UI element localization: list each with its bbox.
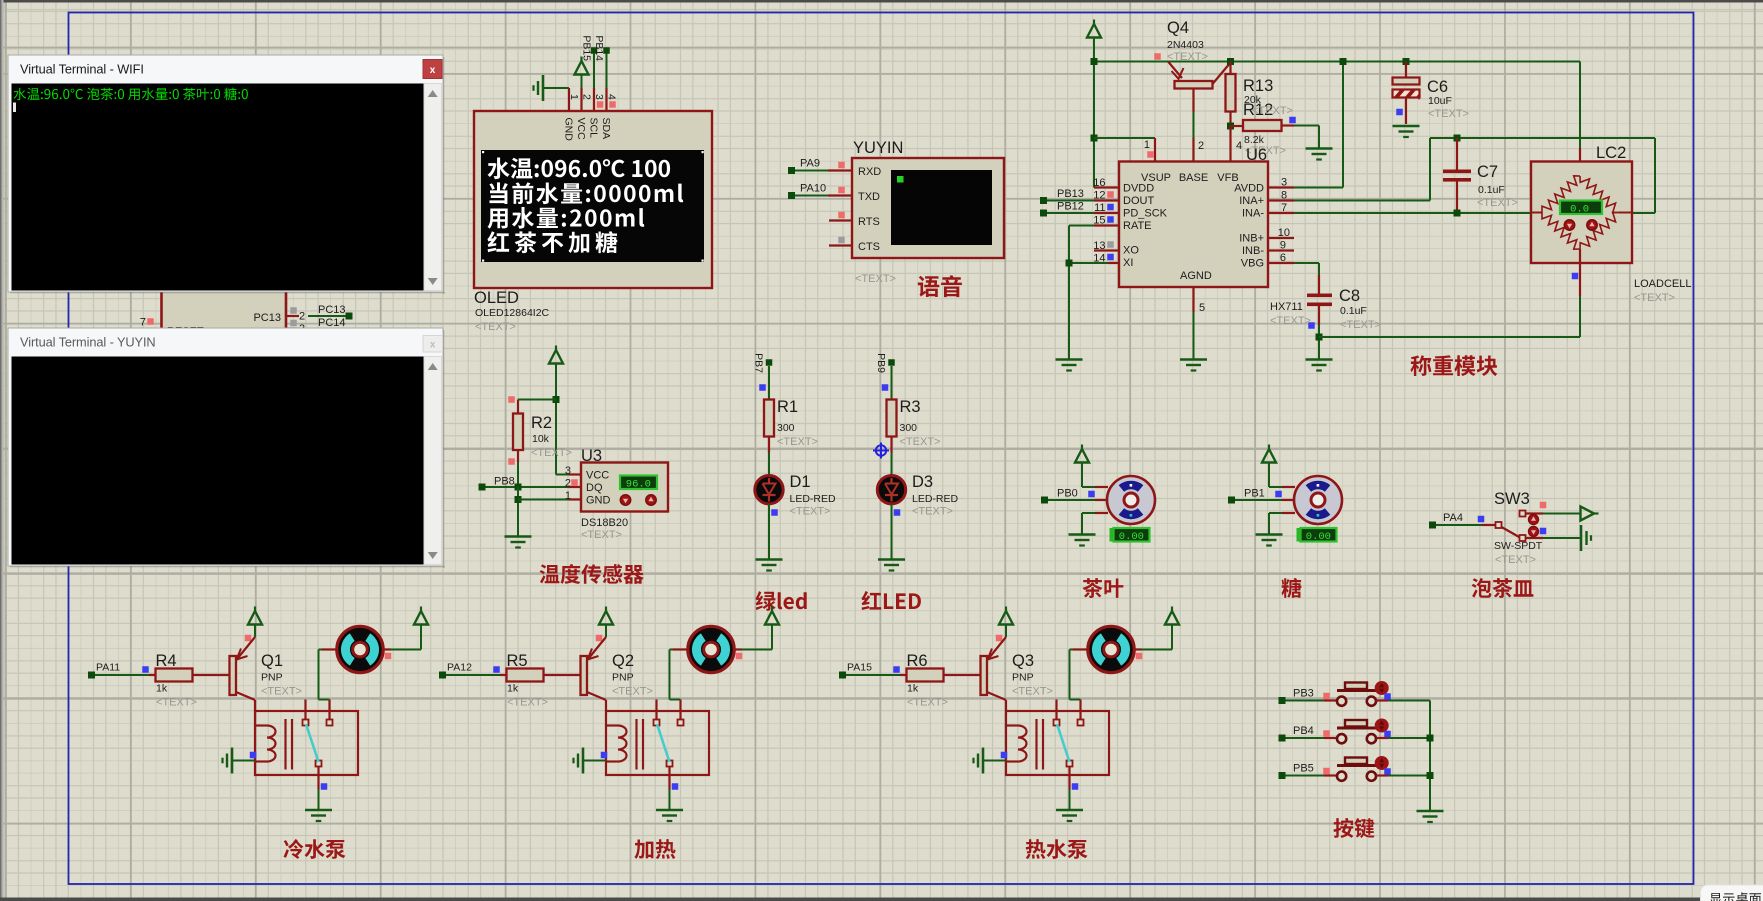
svg-text:PA12: PA12: [447, 662, 472, 674]
svg-text:INA+: INA+: [1239, 195, 1264, 207]
svg-text:<TEXT>: <TEXT>: [1270, 315, 1311, 327]
node junction XI: [1066, 260, 1073, 267]
ground (D3): [878, 558, 905, 561]
svg-text:0.1uF: 0.1uF: [1340, 305, 1367, 317]
power terminal VCC (top rail): [1093, 20, 1095, 27]
pin 7 INA-: [1269, 212, 1294, 214]
svg-text:INB-: INB-: [1242, 245, 1264, 257]
pump (Q2) symbol: [688, 626, 734, 672]
wire U3 GND pin: [518, 499, 569, 501]
screen left edge strip: [0, 0, 2, 901]
power terminal (Q2 emitter): [605, 607, 607, 614]
pin 6 VBG: [1269, 262, 1294, 264]
svg-text:AGND: AGND: [1180, 270, 1212, 282]
svg-text:YUYIN: YUYIN: [853, 139, 903, 157]
svg-text:Virtual Terminal - YUYIN: Virtual Terminal - YUYIN: [20, 335, 156, 350]
svg-text:SW3: SW3: [1494, 490, 1530, 508]
svg-text:DOUT: DOUT: [1123, 195, 1154, 207]
svg-text:RTS: RTS: [858, 216, 880, 228]
svg-text:<TEXT>: <TEXT>: [1012, 686, 1053, 698]
module YUYIN body: [852, 158, 1004, 258]
svg-text:2: 2: [299, 311, 305, 323]
svg-text:<TEXT>: <TEXT>: [1634, 292, 1675, 304]
svg-text:R3: R3: [900, 398, 921, 416]
net PB0 wire: [1041, 497, 1048, 504]
svg-text:1: 1: [565, 490, 571, 502]
pin 15 RATE: [1094, 224, 1119, 226]
node junction Q4 collector / R13 top: [1227, 58, 1234, 65]
svg-text:OLED: OLED: [474, 289, 519, 307]
wire PA15 to R6: [846, 674, 900, 676]
wire top power rail: [1094, 61, 1580, 63]
wire relay common to ground: [668, 767, 670, 790]
relay (Q1) coil ground wire: [232, 760, 255, 762]
annotation tea leaves: [1083, 578, 1124, 598]
svg-text:PD_SCK: PD_SCK: [1123, 208, 1168, 220]
power terminal (Q1 pump): [420, 607, 422, 614]
svg-text:1: 1: [568, 94, 580, 100]
wire relay common to ground: [317, 767, 319, 790]
switch SW3 SW-SPDT: [1482, 524, 1495, 526]
pin RTS: [829, 219, 852, 221]
pin 3 PC14: [286, 327, 299, 329]
net PB5 wire: [1279, 772, 1286, 779]
button PB5: [1324, 774, 1337, 776]
pin 9 INB-: [1269, 249, 1294, 251]
node junction PB8/R2: [515, 484, 522, 491]
net PB3 wire: [1279, 697, 1286, 704]
power terminal (Q3 pump): [1171, 607, 1173, 614]
capacitor C6 10uF: [1403, 58, 1410, 65]
wire D1 to ground: [768, 504, 770, 560]
resistor R1 300: [764, 400, 774, 437]
svg-text:PC13: PC13: [253, 312, 281, 324]
wire D3 to ground: [891, 504, 893, 560]
svg-text:CTS: CTS: [858, 241, 880, 253]
svg-text:R5: R5: [507, 652, 528, 670]
power terminal (PB0 motor): [1081, 445, 1083, 452]
svg-text:0.00: 0.00: [1306, 531, 1331, 543]
svg-text:OLED12864I2C: OLED12864I2C: [475, 307, 550, 319]
microcontroller U1 (partially hidden) body: [161, 292, 287, 332]
relay (Q3) body: [1006, 711, 1109, 775]
node junction PB5 bus: [1427, 772, 1434, 779]
ground (Q2 coil, rotated): [582, 748, 585, 774]
ground (C8): [1306, 358, 1333, 361]
motor (PB1) stepper symbol: [1294, 476, 1342, 524]
ground (buttons): [1417, 810, 1444, 813]
svg-text:PA15: PA15: [847, 662, 872, 674]
transistor Q3 PNP: [981, 656, 988, 695]
svg-text:D1: D1: [790, 473, 811, 491]
svg-text:DQ: DQ: [586, 482, 603, 494]
svg-text:6: 6: [1280, 252, 1286, 264]
net PB1 wire: [1228, 497, 1235, 504]
svg-text:R2: R2: [531, 414, 552, 432]
annotation hot water pump: [1026, 839, 1088, 859]
svg-text:3: 3: [593, 94, 605, 100]
svg-text:PA10: PA10: [800, 183, 826, 195]
svg-text:PC13: PC13: [318, 304, 346, 316]
relay (Q3) switch arm: [1057, 724, 1070, 762]
svg-text:1k: 1k: [907, 683, 919, 695]
motor (PB0) rpm display: [1114, 528, 1150, 542]
button PB3: [1324, 699, 1337, 701]
pin 1 GND: [569, 498, 582, 500]
wire AVDD to top rail: [1294, 187, 1343, 189]
wire PB3 to bus: [1388, 700, 1430, 702]
screen top edge strip: [0, 0, 1763, 3]
svg-text:Q3: Q3: [1012, 652, 1034, 670]
svg-text:7: 7: [140, 317, 146, 329]
terminal WIFI text: [14, 88, 248, 101]
svg-text:SW-SPDT: SW-SPDT: [1494, 540, 1543, 552]
svg-text:<TEXT>: <TEXT>: [581, 529, 622, 541]
relay (Q1) core: [284, 719, 286, 770]
pin 14 XI: [1108, 262, 1119, 264]
net PB8 wire: [479, 484, 486, 491]
ground (Q2 relay): [656, 809, 683, 812]
wire R12 to ground: [1294, 125, 1319, 127]
resistor R13 20k: [1229, 62, 1231, 75]
node junction R13/R12/VFB: [1227, 123, 1234, 130]
power terminal (Q2 pump): [771, 607, 773, 614]
svg-text:4: 4: [606, 94, 618, 100]
capacitor C7 0.1uF: [1454, 135, 1461, 142]
svg-text:SDA: SDA: [600, 118, 612, 140]
wire PB4 to bus: [1388, 737, 1430, 739]
relay (Q1) coil: [255, 724, 267, 726]
node junction power rail / DVDD riser: [1091, 58, 1098, 65]
ground (PB0 motor): [1069, 533, 1096, 536]
OLED screen text line2: [489, 182, 683, 204]
relay (Q2) body: [606, 711, 709, 775]
wire R1 to D1: [768, 453, 770, 475]
capacitor C8 0.1uF: [1318, 275, 1320, 294]
wire pump to power: [733, 648, 742, 650]
svg-text:<TEXT>: <TEXT>: [1252, 105, 1293, 117]
pin 1 VSUP: [1154, 138, 1156, 162]
motor bottom pin: [1282, 512, 1295, 514]
pin 16 DVDD: [1094, 186, 1119, 188]
relay (Q2) coil ground wire: [583, 760, 606, 762]
svg-text:1: 1: [1144, 139, 1150, 151]
wire relay common to ground: [1068, 767, 1070, 790]
wire RATE/XI riser to ground: [1068, 226, 1070, 264]
svg-text:PC14: PC14: [318, 317, 346, 329]
svg-text:Q2: Q2: [612, 652, 634, 670]
YUYIN screen: [891, 170, 992, 245]
wire motor top feed: [1081, 462, 1083, 487]
svg-text:C8: C8: [1339, 287, 1360, 305]
motor (PB1) rpm display: [1301, 528, 1337, 542]
relay (Q1) switch arm: [306, 724, 319, 762]
wire motor bottom to ground: [1082, 512, 1095, 514]
relay (Q3) coil: [1006, 724, 1018, 726]
svg-text:<TEXT>: <TEXT>: [1477, 197, 1518, 209]
taskbar bottom strip: [0, 898, 1763, 901]
pin 4 VFB: [1229, 126, 1231, 162]
pin 10 INB+: [1269, 237, 1294, 239]
motor middle pin: [1095, 499, 1108, 501]
wire SW3 bottom throw: [1543, 537, 1581, 539]
U3 adjust buttons: [620, 495, 656, 505]
svg-text:2: 2: [581, 94, 593, 100]
pin TXD with net PA10: [828, 194, 852, 196]
ground (SW3, rotated right): [1580, 525, 1583, 551]
svg-text:<TEXT>: <TEXT>: [900, 436, 941, 448]
wire VBG to C8: [1294, 262, 1319, 264]
wire pin1 to ground: [543, 87, 569, 89]
svg-text:C6: C6: [1427, 78, 1448, 96]
node junction AVDD rail: [1340, 58, 1347, 65]
net PB7 terminal: [766, 359, 773, 366]
node junction GND pin tap: [515, 496, 522, 503]
svg-text:D3: D3: [912, 473, 933, 491]
svg-text:PA11: PA11: [96, 662, 120, 674]
svg-text:<TEXT>: <TEXT>: [612, 686, 653, 698]
ground (AGND): [1180, 358, 1207, 361]
relay (Q3) contacts: [1055, 700, 1057, 720]
annotation heating: [634, 839, 675, 859]
svg-text:<TEXT>: <TEXT>: [1340, 319, 1381, 331]
svg-text:12: 12: [1093, 190, 1105, 202]
pin CTS: [829, 244, 852, 246]
annotation temperature sensor: [540, 564, 644, 584]
pin 2 DQ: [569, 486, 582, 488]
annotation tea tray: [1472, 578, 1534, 598]
relay (Q1) contacts: [304, 700, 306, 720]
button PB4: [1324, 737, 1337, 739]
wire INA+ to loadcell: [1294, 200, 1430, 202]
ground (DS18B20): [505, 535, 532, 538]
motor bottom pin: [1095, 512, 1108, 514]
relay (Q3) coil ground wire: [983, 760, 1006, 762]
node junction R2 top: [553, 396, 560, 403]
wire PB8 node to ground: [517, 487, 519, 537]
svg-text:XO: XO: [1123, 245, 1139, 257]
svg-text:HX711: HX711: [1270, 301, 1303, 313]
show desktop tooltip: [1701, 885, 1763, 901]
relay (Q2) switch arm: [657, 724, 670, 762]
svg-text:5: 5: [1199, 302, 1205, 314]
svg-text:2N4403: 2N4403: [1167, 39, 1204, 51]
svg-text:<TEXT>: <TEXT>: [912, 506, 953, 518]
svg-text:DS18B20: DS18B20: [581, 517, 628, 529]
svg-text:16: 16: [1093, 177, 1105, 189]
svg-text:<TEXT>: <TEXT>: [261, 686, 302, 698]
OLED screen text line1: [488, 158, 671, 180]
svg-text:PB0: PB0: [1057, 488, 1078, 500]
pin 2 OLED VCC: [580, 88, 582, 111]
pin 1 OLED GND: [568, 88, 570, 111]
pin 3 AVDD: [1269, 186, 1294, 188]
power terminal (DS18B20): [555, 346, 557, 353]
svg-text:1k: 1k: [156, 683, 168, 695]
wire PA12 to R5: [446, 674, 500, 676]
svg-text:PA4: PA4: [1443, 512, 1463, 524]
ground (Q1 relay): [305, 809, 332, 812]
svg-text:XI: XI: [1123, 257, 1133, 269]
node junction VSUP tap: [1091, 135, 1098, 142]
svg-text:0.1uF: 0.1uF: [1478, 184, 1505, 196]
svg-text:RATE: RATE: [1123, 220, 1152, 232]
svg-text:PB1: PB1: [1244, 488, 1265, 500]
svg-text:3: 3: [1281, 177, 1287, 189]
relay (Q2) contacts: [655, 700, 657, 720]
svg-text:0.0: 0.0: [1570, 204, 1589, 216]
svg-text:10uF: 10uF: [1428, 95, 1452, 107]
display OLED body: [474, 111, 712, 288]
pin 2 BASE: [1192, 138, 1194, 162]
svg-text:4: 4: [1236, 140, 1242, 152]
annotation red LED: [861, 591, 881, 610]
net PA4 wire: [1429, 522, 1436, 529]
ground (Q3 coil, rotated): [982, 748, 985, 774]
svg-text:GND: GND: [563, 118, 575, 142]
svg-text:INB+: INB+: [1239, 233, 1264, 245]
svg-text:LED-RED: LED-RED: [912, 493, 959, 505]
svg-text:10: 10: [1278, 227, 1290, 239]
net PB4 wire: [1279, 735, 1286, 742]
svg-text:SCL: SCL: [588, 118, 600, 139]
pin 8 INA+: [1269, 199, 1294, 201]
transistor Q1 PNP: [230, 656, 237, 695]
pin 5 AGND to ground: [1192, 287, 1194, 312]
svg-text:10k: 10k: [532, 433, 550, 445]
annotation cold water pump: [284, 839, 346, 859]
svg-text:Virtual Terminal - WIFI: Virtual Terminal - WIFI: [20, 62, 144, 77]
svg-text:9: 9: [1280, 240, 1286, 252]
svg-text:PB5: PB5: [1293, 763, 1314, 775]
ground (D1): [756, 558, 783, 561]
resistor R4 1k: [149, 674, 156, 676]
svg-text:PNP: PNP: [1012, 672, 1034, 684]
svg-text:PB13: PB13: [1057, 188, 1084, 200]
svg-text:LED-RED: LED-RED: [790, 493, 837, 505]
net PA12 terminal: [439, 672, 446, 679]
svg-text:DVDD: DVDD: [1123, 183, 1154, 195]
wire button ground bus: [1429, 701, 1431, 812]
annotation voice: [918, 275, 962, 297]
pin 4 OLED SDA net PB14: [605, 88, 607, 111]
svg-text:Q1: Q1: [261, 652, 283, 670]
node junction C7/INA-: [1454, 210, 1461, 217]
svg-text:PB14: PB14: [593, 35, 605, 61]
svg-text:LC2: LC2: [1596, 144, 1626, 162]
svg-text:0.00: 0.00: [1119, 531, 1144, 543]
resistor R3 300: [887, 400, 897, 437]
relay (Q1) body: [255, 711, 358, 775]
svg-text:GND: GND: [586, 495, 611, 507]
svg-text:96.0: 96.0: [626, 479, 651, 491]
net PA15 terminal: [839, 672, 846, 679]
svg-text:PB9: PB9: [875, 353, 887, 373]
svg-text:PNP: PNP: [261, 672, 283, 684]
svg-text:<TEXT>: <TEXT>: [475, 321, 516, 333]
terminal WIFI cursor: [13, 103, 16, 113]
svg-text:R1: R1: [777, 398, 798, 416]
mouse crosshair marker: [873, 443, 889, 459]
window Virtual Terminal - YUYIN: [8, 328, 445, 568]
wire VCC drop: [555, 400, 557, 475]
svg-text:PB7: PB7: [753, 353, 765, 373]
svg-text:PNP: PNP: [612, 672, 634, 684]
motor middle pin: [1282, 499, 1295, 501]
svg-text:<TEXT>: <TEXT>: [1167, 51, 1208, 63]
loadcell value display 0.0: [1560, 201, 1602, 215]
power terminal (PB1 motor): [1268, 445, 1270, 452]
svg-text:TXD: TXD: [858, 191, 880, 203]
svg-text:<TEXT>: <TEXT>: [855, 273, 896, 285]
wire relay contact to pump: [319, 699, 330, 701]
svg-text:RXD: RXD: [858, 166, 881, 178]
svg-text:11: 11: [1094, 202, 1105, 214]
wire motor top feed: [1268, 462, 1270, 487]
svg-text:<TEXT>: <TEXT>: [907, 697, 948, 709]
wire VCC corner to pin3: [556, 474, 569, 476]
ground (C6): [1393, 125, 1420, 128]
motor (PB0) stepper symbol: [1107, 476, 1155, 524]
svg-text:BASE: BASE: [1179, 172, 1208, 184]
wire pump to power: [382, 648, 391, 650]
svg-text:<TEXT>: <TEXT>: [531, 447, 572, 459]
motor top pin: [1095, 486, 1108, 488]
annotation sugar: [1282, 578, 1302, 598]
svg-text:<TEXT>: <TEXT>: [790, 506, 831, 518]
ground (PB1 motor): [1256, 533, 1283, 536]
svg-text:PB4: PB4: [1293, 725, 1314, 737]
annotation green led: [755, 591, 775, 611]
svg-text:300: 300: [777, 422, 795, 434]
node junction C8/loadcell return: [1316, 334, 1323, 341]
pin 3 OLED SCL net PB15: [593, 88, 595, 111]
svg-text:PB3: PB3: [1293, 688, 1314, 700]
wire loadcell bottom lead: [1579, 249, 1581, 296]
LED D1 LED-RED: [755, 476, 783, 504]
resistor R5 1k: [500, 674, 507, 676]
power terminal (SW3 right): [1592, 512, 1599, 514]
svg-text:x: x: [430, 65, 436, 76]
svg-text:PB12: PB12: [1057, 201, 1084, 213]
tooltip text show desktop: [1710, 892, 1762, 901]
power terminal (Q3 emitter): [1005, 607, 1007, 614]
svg-text:<TEXT>: <TEXT>: [777, 436, 818, 448]
wire motor bottom to ground: [1269, 512, 1282, 514]
svg-text:R13: R13: [1243, 77, 1273, 95]
power terminal (OLED VCC): [580, 57, 582, 64]
svg-text:13: 13: [1093, 240, 1105, 252]
wire R2 bottom to PB8 node: [517, 462, 519, 487]
wire loadcell bottom return: [1319, 336, 1580, 338]
transistor Q2 PNP: [581, 656, 588, 695]
LED D3 LED-RED: [877, 476, 905, 504]
pump (Q3) symbol: [1088, 626, 1134, 672]
OLED screen: [481, 150, 704, 262]
svg-text:R6: R6: [907, 652, 928, 670]
svg-text:8: 8: [1281, 190, 1287, 202]
wire INA- to loadcell: [1294, 212, 1531, 214]
svg-text:C7: C7: [1477, 163, 1498, 181]
wire DVDD riser: [1093, 62, 1095, 188]
svg-text:3: 3: [565, 465, 571, 477]
pump (Q1) symbol: [337, 626, 383, 672]
ground (Q1 coil, rotated): [231, 748, 234, 774]
window Virtual Terminal - WIFI: [8, 55, 445, 294]
svg-text:<TEXT>: <TEXT>: [507, 697, 548, 709]
svg-text:VBG: VBG: [1241, 258, 1264, 270]
pin 12 DOUT with net PB13: [1094, 199, 1119, 201]
